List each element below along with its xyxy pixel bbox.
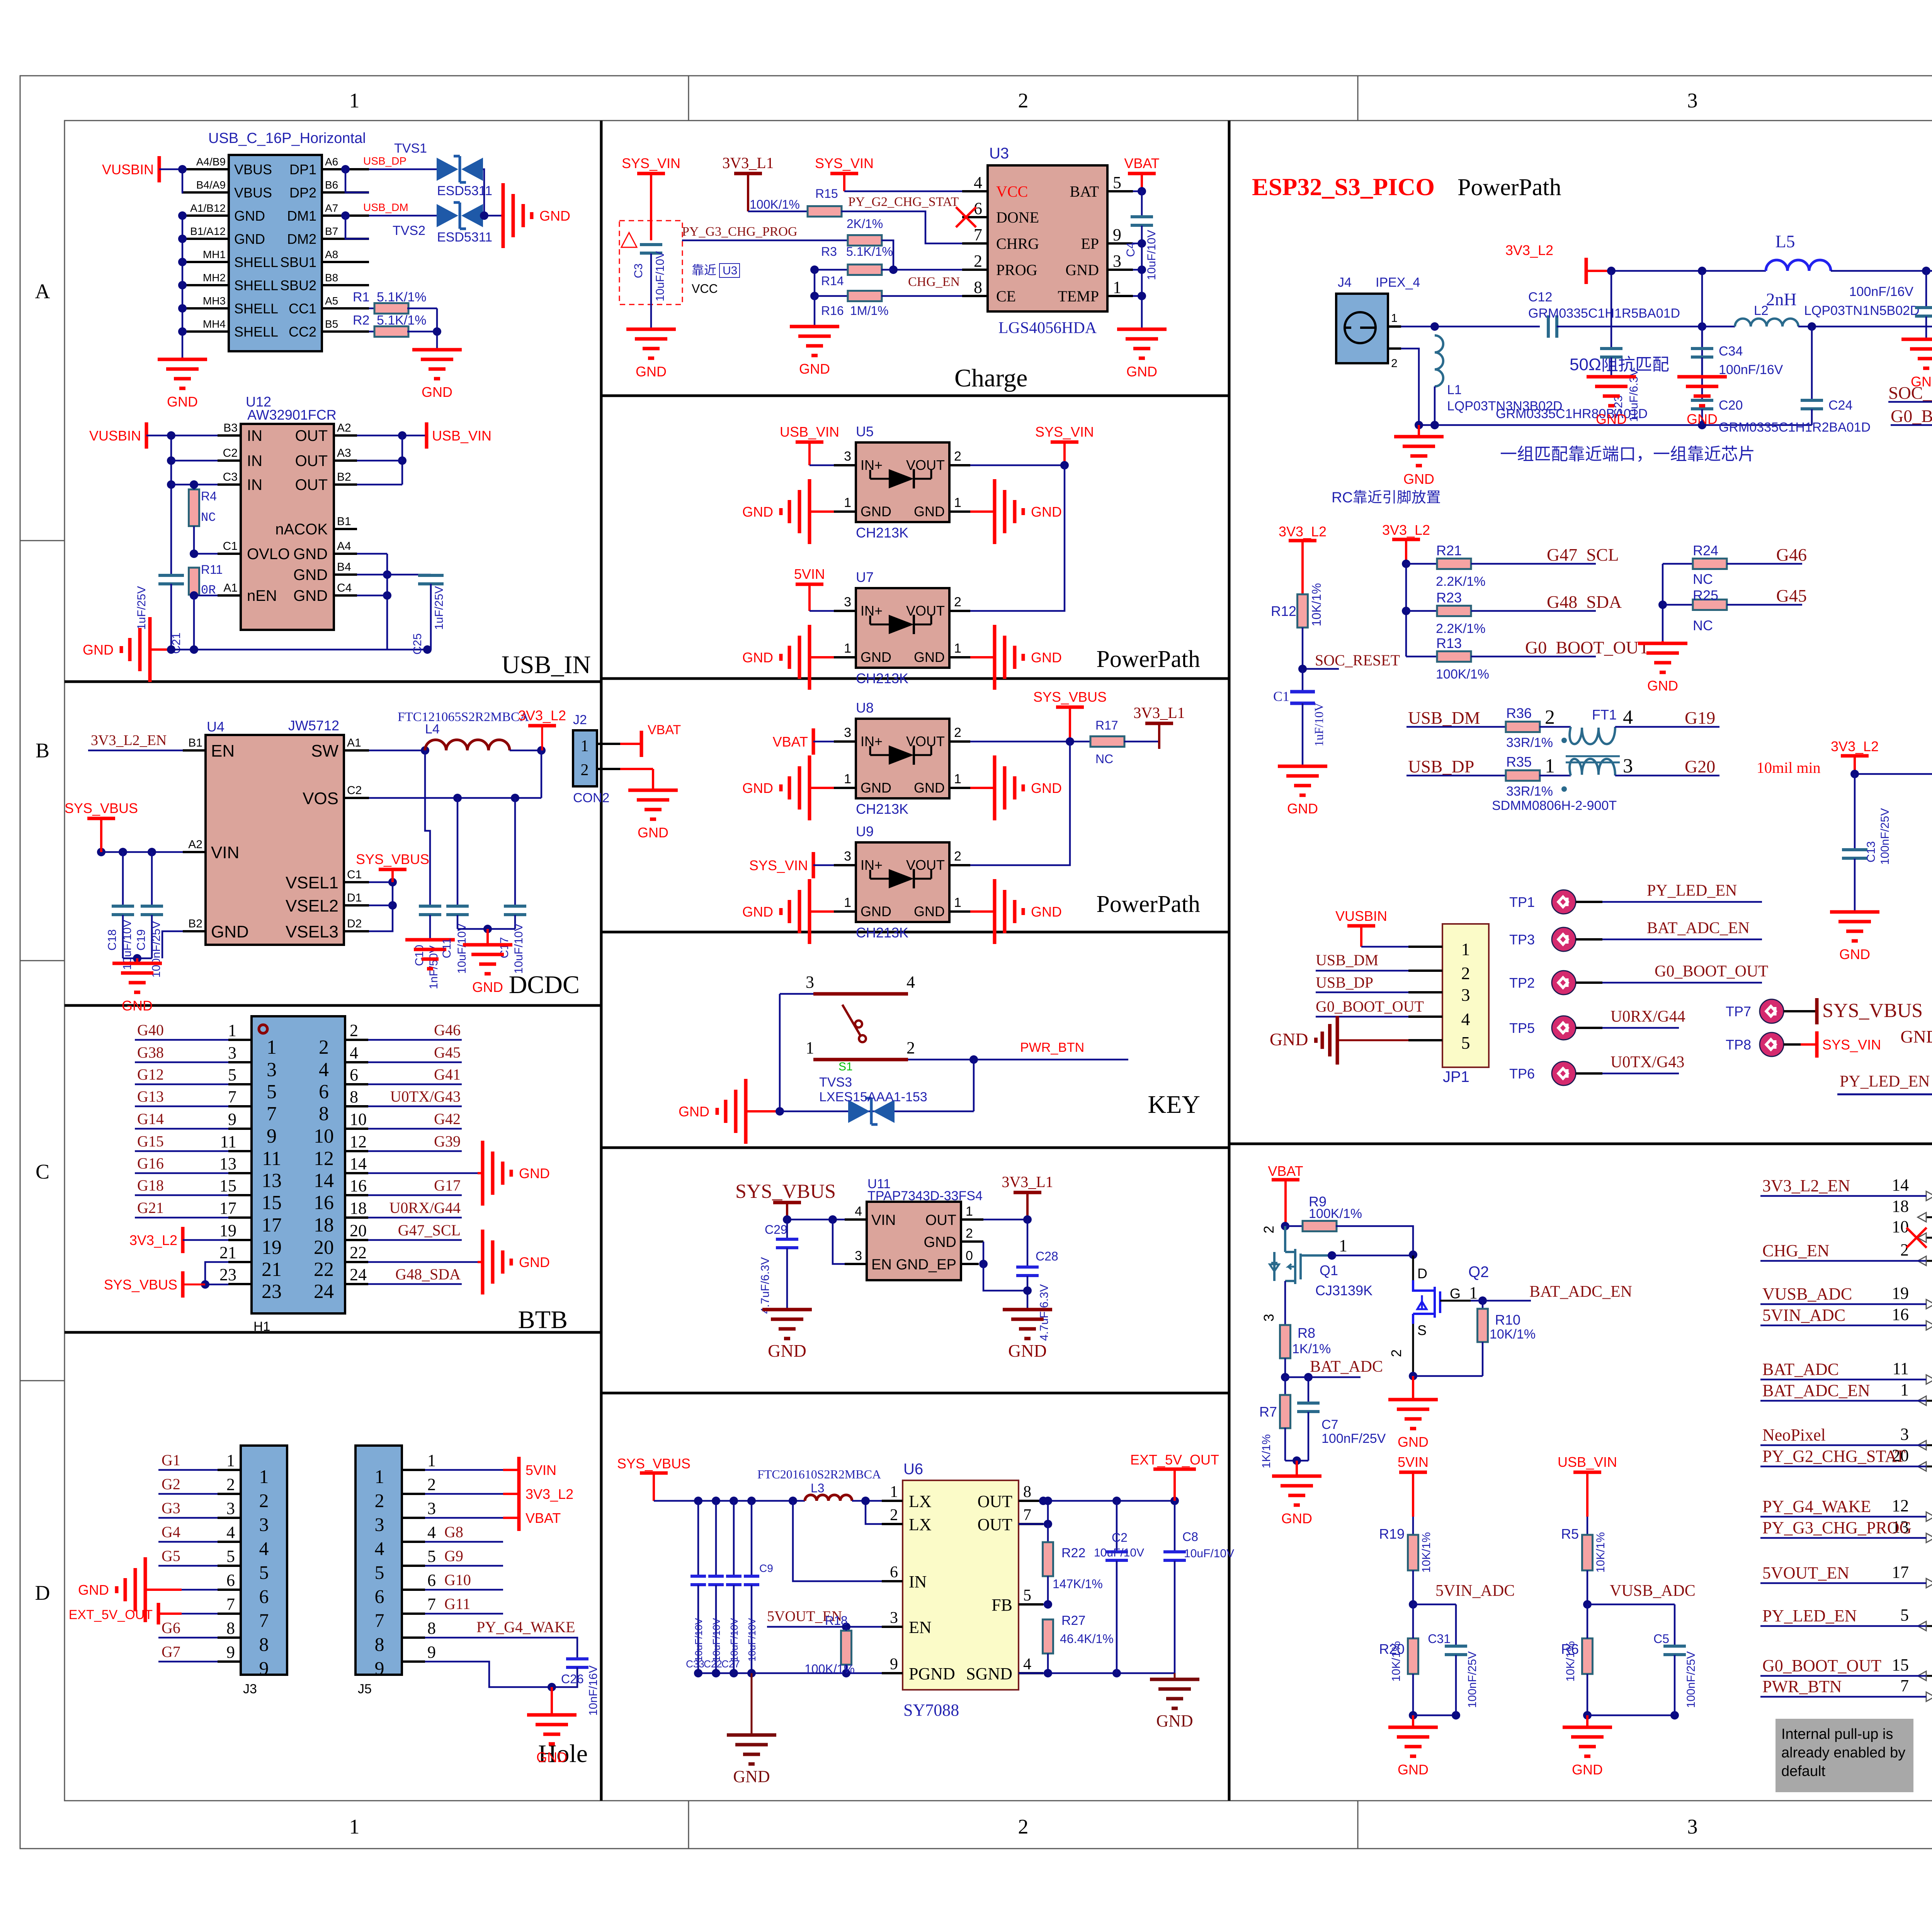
svg-text:17: 17 <box>262 1214 282 1236</box>
svg-text:20: 20 <box>350 1221 367 1240</box>
svg-text:IN+: IN+ <box>861 603 883 619</box>
svg-text:SYS_VIN: SYS_VIN <box>622 155 680 171</box>
svg-text:R22: R22 <box>1061 1546 1085 1560</box>
power flag SYS_VIN at U5 out <box>970 424 1094 469</box>
svg-text:G40: G40 <box>137 1021 164 1039</box>
svg-text:3V3_L2: 3V3_L2 <box>1505 242 1553 258</box>
svg-text:NeoPixel: NeoPixel <box>1762 1425 1826 1444</box>
ic U3 LGS4056HDA body <box>988 145 1107 337</box>
svg-text:15: 15 <box>1892 1655 1909 1674</box>
svg-text:G3: G3 <box>162 1499 180 1517</box>
svg-text:10K/1%: 10K/1% <box>1490 1327 1536 1342</box>
ground GND left of U8 <box>742 755 834 820</box>
svg-text:10K/1%: 10K/1% <box>1594 1532 1607 1573</box>
power flag VBAT at J5 pin3 <box>425 1505 561 1531</box>
capacitor C13 100nF/25V <box>1842 774 1891 912</box>
resistor R1 5.1K/1% <box>353 290 437 314</box>
connector J3 pins <box>218 1451 269 1679</box>
net USB_DM at FT1 <box>1406 708 1506 728</box>
svg-text:2: 2 <box>375 1490 384 1511</box>
svg-text:VOUT: VOUT <box>906 733 945 749</box>
svg-text:B5: B5 <box>325 318 338 330</box>
wire H1 pin22 GND <box>368 1261 478 1263</box>
svg-text:D: D <box>1417 1266 1427 1281</box>
ground rail antenna <box>1415 421 1812 429</box>
resistor R35 33R/1% <box>1506 754 1571 799</box>
svg-text:AW32901FCR: AW32901FCR <box>247 407 337 423</box>
svg-text:MH4: MH4 <box>203 318 226 330</box>
svg-text:S1: S1 <box>838 1060 853 1073</box>
ground GND rail U12 <box>83 617 432 682</box>
wire U7 VOUT to SYS_VIN <box>970 465 1065 611</box>
svg-text:LX: LX <box>909 1492 932 1511</box>
svg-text:C8: C8 <box>1182 1530 1198 1544</box>
svg-text:A6: A6 <box>325 156 338 168</box>
svg-text:GND: GND <box>638 825 668 840</box>
svg-text:R18: R18 <box>825 1614 848 1628</box>
svg-text:GND: GND <box>1031 504 1062 520</box>
svg-text:U0TX/G43: U0TX/G43 <box>1611 1053 1684 1071</box>
wire L5 to VDD3P3 riser <box>1831 267 1932 275</box>
svg-text:1: 1 <box>1469 1283 1478 1302</box>
wire U12 nEN <box>190 591 218 650</box>
capacitor C25 1uF/25V <box>387 575 446 655</box>
capacitor C24 <box>1801 327 1852 425</box>
capacitor C34 100nF/16V <box>1691 271 1783 377</box>
svg-text:1: 1 <box>1900 1380 1909 1399</box>
svg-text:L1: L1 <box>1447 383 1462 397</box>
svg-text:GND: GND <box>83 642 114 658</box>
svg-text:2: 2 <box>966 1226 973 1241</box>
svg-text:SYS_VBUS: SYS_VBUS <box>65 800 138 816</box>
svg-text:ESD5311: ESD5311 <box>437 230 492 245</box>
svg-text:3: 3 <box>228 1043 236 1062</box>
ground GND below J2 <box>620 769 678 840</box>
svg-text:1uF/25V: 1uF/25V <box>433 586 446 630</box>
svg-text:GND: GND <box>861 780 891 796</box>
svg-text:U3: U3 <box>989 145 1009 162</box>
wire TVS3 branch <box>780 1060 974 1111</box>
svg-text:IN: IN <box>909 1572 927 1591</box>
note RC placement <box>1332 490 1441 506</box>
svg-text:GND: GND <box>1065 261 1099 279</box>
svg-text:C2: C2 <box>347 784 362 797</box>
svg-text:4: 4 <box>350 1043 358 1062</box>
svg-text:3V3_L2: 3V3_L2 <box>129 1232 177 1248</box>
ic U6 pins <box>882 1483 1043 1683</box>
ground GND below input caps <box>727 1673 776 1786</box>
capacitor C10 1nF/50V <box>413 906 441 989</box>
capacitor C28 4.7uF/6.3V <box>1016 1220 1058 1341</box>
ground GND below R24 R25 <box>1638 641 1687 694</box>
ground GND below USB shell <box>158 357 207 410</box>
svg-text:1: 1 <box>1113 278 1121 297</box>
svg-text:2: 2 <box>319 1036 329 1058</box>
svg-text:Q1: Q1 <box>1320 1262 1338 1278</box>
svg-text:SYS_VBUS: SYS_VBUS <box>617 1456 690 1471</box>
svg-text:8: 8 <box>319 1103 329 1125</box>
svg-text:1: 1 <box>349 89 360 112</box>
svg-text:10uF/10V: 10uF/10V <box>746 1618 758 1662</box>
resistor R10 10K/1% <box>1478 1301 1536 1376</box>
svg-text:7: 7 <box>1023 1506 1031 1524</box>
svg-text:DP2: DP2 <box>289 185 316 201</box>
capacitor C19 100nF/25V <box>135 852 163 978</box>
svg-text:VUSB_ADC: VUSB_ADC <box>1762 1284 1852 1303</box>
wire U6 LX2 <box>861 1497 882 1524</box>
net SOC_RESET at R12 <box>1298 651 1400 673</box>
svg-text:6: 6 <box>350 1065 358 1084</box>
svg-text:B2: B2 <box>188 917 202 930</box>
svg-text:FT1: FT1 <box>1592 707 1617 723</box>
svg-text:GND: GND <box>519 1254 550 1270</box>
svg-text:100nF/16V: 100nF/16V <box>1849 284 1914 299</box>
power flag EXT_5V_OUT at U6 <box>1130 1452 1219 1501</box>
svg-text:GND: GND <box>861 649 891 665</box>
wire R21 bus <box>1402 560 1410 657</box>
svg-text:5: 5 <box>259 1561 269 1583</box>
svg-text:10uF/10V: 10uF/10V <box>456 924 468 974</box>
testpoint TP2 <box>1509 963 1768 995</box>
svg-text:G0_BOOT_OUT: G0_BOOT_OUT <box>1891 406 1932 426</box>
svg-text:GND: GND <box>234 231 265 247</box>
svg-text:GND: GND <box>861 903 891 919</box>
svg-text:R25: R25 <box>1693 587 1718 603</box>
svg-text:2: 2 <box>1018 1815 1029 1838</box>
resistor R25 NC <box>1663 586 1807 633</box>
svg-text:5: 5 <box>427 1547 436 1566</box>
svg-text:C11: C11 <box>440 938 453 958</box>
svg-text:SYS_VBUS: SYS_VBUS <box>1822 1000 1923 1022</box>
svg-text:USB_DM: USB_DM <box>363 201 408 213</box>
dashed box C3 near U3 <box>619 221 682 304</box>
svg-text:20: 20 <box>314 1237 334 1259</box>
svg-text:GND: GND <box>742 780 773 796</box>
power flag 3V3_L2 at J5 pin2 <box>425 1481 573 1507</box>
svg-text:C25: C25 <box>411 633 424 655</box>
svg-text:DONE: DONE <box>996 209 1039 226</box>
ground GND below J4 <box>1394 425 1444 487</box>
svg-text:VOUT: VOUT <box>906 603 945 619</box>
svg-text:PY_G2_CHG_STAT: PY_G2_CHG_STAT <box>1762 1447 1906 1466</box>
svg-text:1: 1 <box>259 1466 269 1487</box>
svg-text:3: 3 <box>890 1609 898 1627</box>
svg-text:PowerPath: PowerPath <box>1096 646 1200 672</box>
svg-text:18: 18 <box>1892 1197 1909 1216</box>
svg-text:12: 12 <box>350 1132 367 1151</box>
svg-text:SBU1: SBU1 <box>280 254 316 270</box>
svg-text:3: 3 <box>1687 1815 1698 1838</box>
svg-text:17: 17 <box>219 1199 236 1218</box>
svg-text:U0RX/G44: U0RX/G44 <box>1611 1008 1685 1026</box>
wire U11 VIN <box>783 1215 845 1264</box>
svg-text:CH213K: CH213K <box>856 801 908 817</box>
svg-text:L5: L5 <box>1775 231 1795 251</box>
svg-text:G42: G42 <box>434 1110 461 1128</box>
svg-text:A1/B12: A1/B12 <box>190 202 226 214</box>
net CHG_EN <box>908 275 960 289</box>
svg-text:CH213K: CH213K <box>856 525 908 541</box>
svg-text:OUT: OUT <box>978 1492 1013 1511</box>
svg-text:5.1K/1%: 5.1K/1% <box>377 290 427 304</box>
net G20 at FT1 <box>1615 757 1719 776</box>
net BAT_ADC rail <box>1281 1358 1383 1381</box>
power flag 3V3_L2 filter <box>1505 242 1611 284</box>
svg-text:10uF/10V: 10uF/10V <box>728 1618 740 1662</box>
svg-text:U8: U8 <box>856 700 874 716</box>
svg-text:6: 6 <box>259 1585 269 1607</box>
testpoint TP3 <box>1509 919 1762 951</box>
svg-text:G48_SDA: G48_SDA <box>395 1266 461 1283</box>
svg-text:G6: G6 <box>162 1619 180 1636</box>
svg-text:5VIN_ADC: 5VIN_ADC <box>1762 1306 1845 1325</box>
svg-text:GND: GND <box>1403 471 1434 487</box>
power flag VBAT at J2 <box>620 723 681 757</box>
svg-text:2: 2 <box>1388 1349 1404 1357</box>
resistor R27 46.4K/1% <box>1043 1613 1114 1673</box>
svg-text:GND: GND <box>1126 364 1157 379</box>
svg-text:GND: GND <box>422 384 452 400</box>
svg-text:13: 13 <box>219 1154 236 1173</box>
ground GND below C8 <box>1150 1673 1199 1730</box>
svg-text:100nF/25V: 100nF/25V <box>1685 1651 1697 1708</box>
svg-text:GND: GND <box>167 394 198 410</box>
svg-text:8: 8 <box>226 1619 235 1638</box>
svg-text:2: 2 <box>1900 1240 1909 1259</box>
capacitor C26 10nF/16V <box>552 1659 600 1716</box>
svg-text:SBU2: SBU2 <box>280 277 316 293</box>
connector H1 body <box>252 1016 345 1334</box>
svg-text:3: 3 <box>806 973 814 992</box>
svg-text:U5: U5 <box>856 424 874 439</box>
ground GND below C1 <box>1278 766 1327 816</box>
svg-text:33R/1%: 33R/1% <box>1506 784 1553 799</box>
svg-text:46.4K/1%: 46.4K/1% <box>1060 1632 1114 1646</box>
svg-text:C1: C1 <box>1273 689 1289 704</box>
svg-text:KEY: KEY <box>1148 1090 1200 1119</box>
wire U11 OUT <box>983 1215 1032 1224</box>
svg-text:1: 1 <box>226 1451 235 1470</box>
svg-text:GND: GND <box>1398 1762 1429 1778</box>
ground GND below C35 <box>1901 339 1932 390</box>
svg-text:3: 3 <box>259 1514 269 1535</box>
svg-text:1: 1 <box>890 1483 898 1501</box>
svg-text:GND: GND <box>211 922 249 941</box>
svg-text:SHELL: SHELL <box>234 301 278 316</box>
svg-text:G45: G45 <box>434 1044 461 1061</box>
capacitor C21 1uF/25V <box>135 575 184 654</box>
section title BTB <box>518 1306 568 1334</box>
svg-text:VUSBIN: VUSBIN <box>102 162 154 177</box>
power flag SYS_VBUS at H1 pin23 <box>104 1271 205 1298</box>
svg-text:CE: CE <box>996 287 1016 305</box>
power flag 3V3_L2 at RTC <box>1831 738 1932 778</box>
svg-text:GND: GND <box>914 903 945 919</box>
svg-text:GND: GND <box>472 979 503 995</box>
resistor R3 2K/1% 5.1K/1% <box>682 217 962 274</box>
svg-text:GND: GND <box>914 780 945 796</box>
svg-text:19: 19 <box>262 1237 282 1259</box>
svg-text:2: 2 <box>226 1475 235 1494</box>
svg-text:GND: GND <box>1156 1711 1193 1730</box>
svg-text:18: 18 <box>314 1214 334 1236</box>
svg-text:GND: GND <box>122 998 153 1014</box>
svg-text:IN: IN <box>247 427 262 444</box>
svg-text:GND: GND <box>768 1341 806 1361</box>
svg-text:C12: C12 <box>1528 290 1552 304</box>
svg-text:3V3_L2: 3V3_L2 <box>1382 522 1430 538</box>
net PY_G2_CHG_STAT <box>848 195 959 209</box>
svg-text:3V3_L2: 3V3_L2 <box>1831 738 1879 754</box>
svg-text:OUT: OUT <box>295 476 328 493</box>
svg-text:GND: GND <box>742 904 773 920</box>
svg-text:BAT_ADC_EN: BAT_ADC_EN <box>1529 1283 1632 1301</box>
svg-text:2: 2 <box>906 1038 915 1057</box>
svg-text:SW: SW <box>311 742 338 760</box>
svg-text:G0_BOOT_OUT: G0_BOOT_OUT <box>1316 998 1424 1015</box>
svg-text:5: 5 <box>226 1547 235 1566</box>
divider R19 R20 C31 5VIN_ADC <box>1379 1454 1515 1778</box>
svg-text:IN+: IN+ <box>861 857 883 873</box>
wire PWR_BTN <box>908 1040 1128 1064</box>
power flag 5VIN at U7 <box>794 566 834 611</box>
wire U6 OUT rail <box>1039 1497 1179 1505</box>
svg-text:2: 2 <box>1391 357 1398 370</box>
svg-text:CH213K: CH213K <box>856 670 908 686</box>
wire Q2 source rail <box>1409 1372 1483 1380</box>
svg-text:BAT_ADC_EN: BAT_ADC_EN <box>1762 1381 1870 1400</box>
resistor R24 NC <box>1663 543 1807 587</box>
svg-text:NC: NC <box>1693 571 1713 587</box>
transistor Q2 mosfet <box>1388 1250 1489 1376</box>
svg-text:8: 8 <box>375 1633 384 1655</box>
svg-text:4: 4 <box>1623 706 1633 728</box>
svg-text:C18: C18 <box>106 929 119 951</box>
svg-text:BAT_ADC: BAT_ADC <box>1310 1358 1383 1376</box>
wire DP2 join <box>345 169 369 192</box>
svg-text:3: 3 <box>844 849 851 864</box>
wire U12 OUT bus <box>357 431 427 485</box>
svg-text:147K/1%: 147K/1% <box>1053 1577 1103 1591</box>
svg-text:4: 4 <box>1461 1009 1470 1029</box>
svg-text:100nF/25V: 100nF/25V <box>1879 808 1891 865</box>
inductor L3 FTC201610S2R2MBCA <box>757 1467 882 1501</box>
wire TVS common <box>480 169 501 220</box>
svg-text:2.2K/1%: 2.2K/1% <box>1436 574 1486 589</box>
svg-text:1: 1 <box>954 895 961 910</box>
svg-text:GND: GND <box>1900 1027 1932 1046</box>
svg-text:5.1K/1%: 5.1K/1% <box>377 313 427 328</box>
svg-text:R1: R1 <box>353 290 369 304</box>
ground GND right of U9 <box>970 879 1062 944</box>
net PY_LED_EN at LED1 <box>1837 1073 1932 1094</box>
svg-text:1: 1 <box>844 895 851 910</box>
svg-text:R12: R12 <box>1271 603 1296 619</box>
wire U12 IN bus <box>167 431 218 575</box>
svg-text:G21: G21 <box>137 1199 164 1216</box>
connector USB_C_16P_Horizontal body <box>208 130 366 351</box>
svg-text:4.7uF/6.3V: 4.7uF/6.3V <box>1038 1284 1051 1341</box>
resistor R14 <box>815 265 893 288</box>
ground GND below R16 <box>790 327 839 377</box>
svg-text:SDMM0806H-2-900T: SDMM0806H-2-900T <box>1492 798 1617 813</box>
resistor R17 NC <box>1090 718 1159 766</box>
svg-text:6: 6 <box>890 1563 898 1581</box>
svg-text:3: 3 <box>1900 1425 1909 1444</box>
ic U9 CH213K <box>834 823 970 941</box>
svg-text:5: 5 <box>1900 1606 1909 1624</box>
svg-text:3V3_L2: 3V3_L2 <box>1279 524 1327 539</box>
connector H1 pins <box>219 1021 368 1303</box>
connector J4 pins <box>1388 312 1401 370</box>
power flag SYS_VIN at U9 <box>749 852 834 878</box>
svg-text:6: 6 <box>427 1571 436 1590</box>
svg-text:GND: GND <box>636 364 667 379</box>
svg-text:G41: G41 <box>434 1066 461 1083</box>
wire U11 GND_EP tie <box>979 1242 1032 1295</box>
svg-text:C22: C22 <box>704 1658 722 1670</box>
net USB_DP at FT1 <box>1406 757 1506 776</box>
svg-text:TP8: TP8 <box>1726 1037 1751 1053</box>
svg-text:R35: R35 <box>1506 754 1532 770</box>
svg-text:10uF/10V: 10uF/10V <box>512 924 525 974</box>
resistor R15 100K/1% <box>748 187 962 243</box>
note GRM0335C1HR80BA01D <box>1496 407 1648 421</box>
svg-text:G46: G46 <box>1776 545 1807 565</box>
power flag VBAT at U3 <box>1124 155 1159 191</box>
switch S1 top contacts <box>806 973 915 994</box>
svg-text:VBAT: VBAT <box>1124 155 1159 171</box>
connector JP1 pins <box>1408 939 1470 1053</box>
svg-text:5VIN: 5VIN <box>1398 1454 1429 1470</box>
ic U12 AW32901FCR body <box>241 394 337 630</box>
svg-text:MH1: MH1 <box>203 248 226 260</box>
ground GND at H1 pin22 <box>478 1230 550 1294</box>
wire U6 input rail <box>654 1497 805 1505</box>
svg-text:G11: G11 <box>444 1595 470 1613</box>
svg-text:5.1K/1%: 5.1K/1% <box>846 245 893 259</box>
ground GND at H1 pin14 <box>478 1141 550 1206</box>
ground GND left of U5 <box>742 479 834 544</box>
svg-text:12: 12 <box>314 1148 334 1170</box>
wire U9 VOUT up <box>970 742 1070 865</box>
svg-text:2: 2 <box>954 725 961 740</box>
note match groups <box>1500 445 1755 464</box>
svg-text:VSEL1: VSEL1 <box>286 873 338 892</box>
svg-text:JW5712: JW5712 <box>288 718 339 733</box>
svg-text:EN: EN <box>909 1618 932 1637</box>
svg-text:GND: GND <box>742 504 773 520</box>
svg-text:GND: GND <box>1031 650 1062 665</box>
net 5VOUT_EN at U6 <box>767 1608 882 1631</box>
svg-text:3: 3 <box>844 595 851 609</box>
svg-text:C: C <box>36 1160 49 1183</box>
svg-text:SYS_VIN: SYS_VIN <box>1822 1037 1881 1053</box>
svg-text:U0TX/G43: U0TX/G43 <box>390 1088 461 1105</box>
svg-text:U3: U3 <box>723 264 737 277</box>
svg-text:3V3_L2: 3V3_L2 <box>526 1486 573 1502</box>
power flag SYS_VIN over C3 <box>622 155 680 240</box>
connector J5 pins <box>375 1451 436 1679</box>
ground GND right of U7 <box>970 625 1062 690</box>
capacitor C17 10uF/10V <box>498 906 526 974</box>
svg-text:100nF/25V: 100nF/25V <box>150 921 163 978</box>
ic U11 TPAP7343D-33FS4 body <box>867 1177 983 1280</box>
svg-text:SHELL: SHELL <box>234 277 278 293</box>
section title Hole <box>538 1740 588 1768</box>
power flag EXT_5V_OUT at J3 pin7 <box>69 1603 218 1624</box>
svg-text:7: 7 <box>375 1609 384 1631</box>
